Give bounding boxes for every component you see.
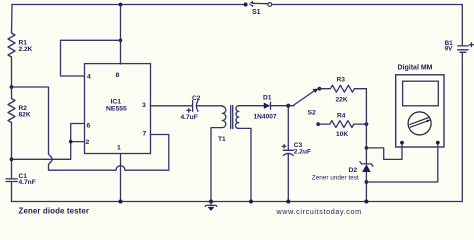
wire top rail left segment: [12, 4, 244, 6]
resistor R1: [8, 33, 33, 57]
svg-text:D1: D1: [263, 95, 272, 102]
svg-text:6: 6: [87, 122, 91, 129]
wire pin7 discharge net with hops: [12, 87, 169, 170]
svg-text:IC1: IC1: [111, 98, 122, 105]
node D1 output: [286, 104, 290, 108]
wire pin8 to top rail: [120, 5, 122, 65]
svg-text:2.2uF: 2.2uF: [294, 149, 311, 156]
wire to meter right terminal: [366, 143, 437, 182]
wire secondary bottom: [239, 128, 251, 201]
svg-text:C2: C2: [192, 95, 201, 102]
node junction R2-C1: [10, 157, 14, 161]
svg-text:3: 3: [142, 102, 146, 109]
svg-text:NE555: NE555: [106, 106, 127, 113]
svg-text:2: 2: [86, 139, 90, 146]
wire left rail top: [11, 5, 14, 34]
diode D1 1N4007: [254, 95, 277, 121]
svg-text:Digital MM: Digital MM: [398, 64, 433, 71]
svg-text:R4: R4: [337, 112, 346, 119]
node pin1 rail: [119, 200, 123, 204]
wire top rail right segment: [272, 4, 462, 6]
capacitor C3: [282, 142, 311, 155]
node C3 rail: [286, 200, 290, 204]
wire bottom rail: [12, 201, 463, 203]
svg-text:82K: 82K: [19, 112, 31, 119]
svg-text:8: 8: [116, 72, 120, 79]
switch S2: [288, 87, 321, 126]
wire to meter left terminal: [366, 143, 402, 160]
node T1 secondary rail: [249, 200, 253, 204]
svg-text:4: 4: [87, 73, 91, 80]
wire C2 to transformer: [197, 105, 223, 107]
node junction R1-R2: [10, 85, 14, 89]
svg-text:D2: D2: [349, 167, 358, 174]
svg-text:7: 7: [143, 131, 147, 138]
svg-text:4.7uF: 4.7uF: [181, 114, 198, 121]
wire pin1 to ground rail: [120, 154, 122, 202]
wire left rail lower: [11, 123, 13, 179]
wire trigger net to pins 2 and 6: [12, 124, 85, 160]
multimeter Digital MM: [396, 64, 444, 147]
core: [231, 105, 233, 128]
svg-text:9V: 9V: [445, 45, 454, 52]
svg-text:S1: S1: [252, 9, 261, 16]
wire primary bottom to ground: [211, 128, 222, 202]
svg-text:2.2K: 2.2K: [19, 46, 33, 53]
svg-text:1: 1: [117, 144, 121, 151]
wire C3 branch down: [287, 106, 289, 202]
node R4 junction: [365, 122, 369, 126]
resistor R2: [8, 99, 31, 123]
resistor R4 10K: [318, 112, 366, 138]
wire pin4 to top rail: [61, 40, 121, 76]
ground: [205, 202, 216, 211]
wire left rail bottom: [11, 182, 13, 202]
secondary winding: [235, 106, 238, 129]
svg-text:Zener under test: Zener under test: [312, 175, 359, 182]
node T1 primary rail: [209, 200, 213, 204]
wire R3 R4 common vertical: [365, 89, 367, 164]
transformer T1: [218, 105, 239, 142]
svg-text:10K: 10K: [336, 131, 348, 138]
primary winding: [222, 106, 226, 127]
switch S1: [244, 1, 272, 16]
svg-text:Zener diode tester: Zener diode tester: [19, 207, 90, 216]
battery B1 9V: [445, 5, 474, 202]
node D2 top junction: [365, 146, 369, 150]
IC U1 IC1 NE555 timer box: [85, 64, 151, 154]
wire pin3 output: [150, 105, 192, 107]
svg-text:S2: S2: [308, 109, 317, 116]
node D2 rail: [364, 200, 368, 204]
wire D1 to node: [271, 105, 289, 107]
capacitor C2: [181, 95, 201, 121]
resistor R3 22K: [319, 77, 366, 104]
wire secondary top to D1: [239, 105, 264, 107]
capacitor C1: [6, 173, 36, 186]
wire left rail middle: [11, 57, 13, 99]
svg-text:www.circuitstoday.com: www.circuitstoday.com: [276, 207, 362, 216]
svg-text:R3: R3: [337, 77, 346, 84]
svg-text:4.7nF: 4.7nF: [19, 179, 36, 186]
node pin8 top rail: [119, 3, 123, 7]
svg-text:T1: T1: [218, 136, 226, 143]
svg-text:1N4007: 1N4007: [254, 113, 277, 120]
zener diode D2: [312, 162, 373, 202]
svg-text:22K: 22K: [336, 96, 348, 103]
node D2 meter junction: [365, 180, 369, 184]
node pin8 branch: [119, 39, 123, 43]
